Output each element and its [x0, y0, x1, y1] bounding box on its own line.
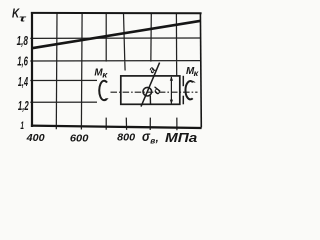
- gridline h 1.8: [30, 37, 201, 39]
- svg-text:1: 1: [20, 120, 24, 132]
- inset: torque arc left arrowhead: [105, 98, 108, 101]
- svg-text:к: к: [102, 70, 108, 80]
- paper background: [0, 0, 210, 148]
- gridline h 1.2: [30, 101, 201, 103]
- inset: hole hidden-line stub below circle: [149, 96, 151, 105]
- inset: torque arc right arrowhead: [193, 81, 196, 83]
- gridline v 700: [105, 13, 107, 130]
- inset: dimension line d: [170, 77, 172, 103]
- gridline v 800: [124, 13, 127, 130]
- gridline v 800 stub above inset: [124, 62, 126, 71]
- inset: shaft end double-line bottom segment: [182, 96, 184, 105]
- gridline v 1000: [175, 13, 178, 130]
- chart frame: [31, 12, 202, 128]
- svg-text:в: в: [150, 136, 155, 146]
- svg-text:800: 800: [117, 132, 135, 144]
- inset: torque arc left: [99, 81, 107, 100]
- gridline v 600: [80, 13, 83, 130]
- svg-text:,: ,: [155, 133, 159, 145]
- svg-text:1,8: 1,8: [17, 34, 28, 48]
- svg-text:400: 400: [26, 133, 45, 144]
- svg-text:1,2: 1,2: [18, 99, 29, 113]
- svg-text:к: к: [194, 68, 199, 78]
- inset: dimension arrow bottom: [170, 100, 173, 104]
- inset: dash-dot centerline: [111, 91, 198, 93]
- svg-text:1,4: 1,4: [18, 75, 28, 89]
- gridline h 1.6: [30, 60, 201, 62]
- inset: torque arc right: [185, 81, 192, 99]
- svg-text:1,6: 1,6: [17, 55, 28, 69]
- gridline h 1.4: [30, 79, 201, 81]
- inset: hole axis diagonal leader: [141, 63, 160, 107]
- inset: hole circle: [143, 87, 152, 96]
- inset: shaft rectangle: [121, 76, 180, 104]
- svg-text:600: 600: [70, 133, 89, 145]
- inset whiteout patch: [97, 62, 201, 118]
- gridline v 900: [150, 13, 151, 130]
- gridline v 500: [55, 13, 58, 129]
- inset: shaft end double-line top segment: [182, 76, 184, 86]
- gridline v 1000 stub above inset: [176, 62, 178, 76]
- curve K-tau vs sigma: [32, 21, 201, 48]
- inset: dimension arrow top: [170, 76, 173, 80]
- svg-text:МПа: МПа: [165, 130, 197, 145]
